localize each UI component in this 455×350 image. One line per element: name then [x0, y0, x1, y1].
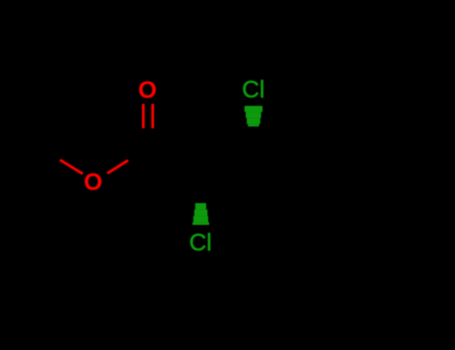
svg-text:O: O	[84, 169, 103, 196]
svg-text:Cl: Cl	[242, 77, 265, 104]
svg-text:Cl: Cl	[189, 229, 212, 256]
svg-text:O: O	[138, 77, 157, 104]
